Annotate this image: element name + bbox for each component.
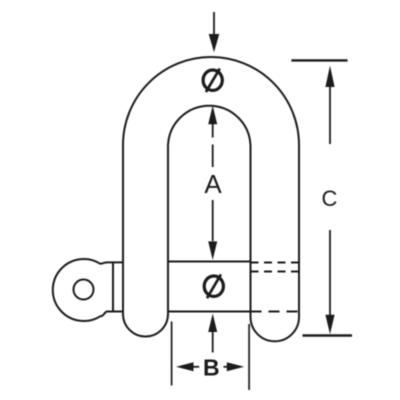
svg-text:A: A — [204, 169, 222, 199]
svg-text:C: C — [322, 186, 338, 211]
svg-text:B: B — [203, 355, 220, 381]
